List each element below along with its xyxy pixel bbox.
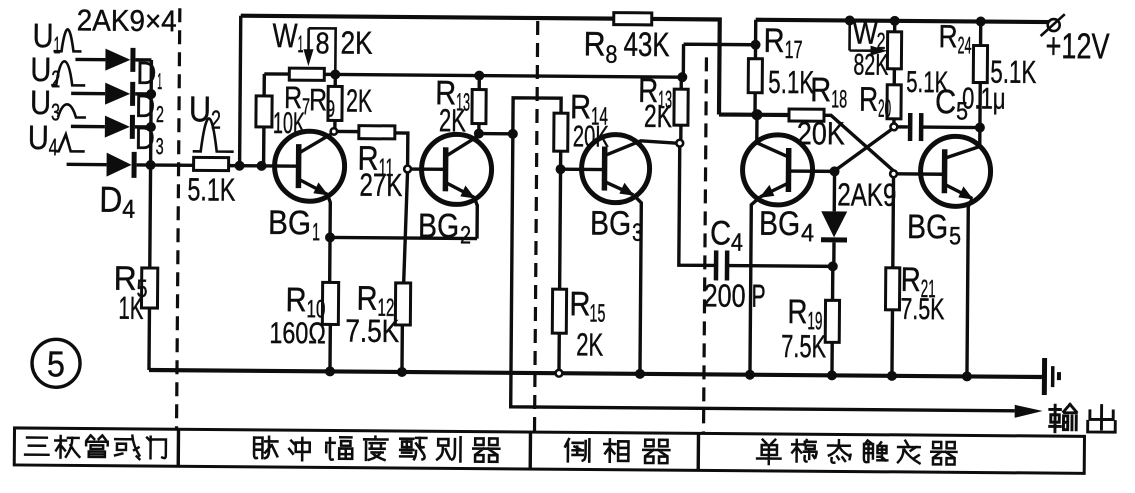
diode D3 — [105, 116, 130, 138]
wire: BG3 collector down to C4 — [679, 146, 717, 265]
resistor R12 — [402, 172, 408, 372]
svg-text:2K: 2K — [644, 98, 672, 134]
svg-text:1K: 1K — [118, 290, 143, 326]
node: R19 ground — [827, 370, 837, 380]
input line U4 / main input line — [67, 163, 107, 167]
resistor R21 — [892, 177, 894, 376]
band label: monostable trigger — [757, 440, 956, 466]
diode D2 — [105, 83, 130, 105]
diode D4 — [106, 153, 131, 177]
resistor 5.1K body (base series) — [194, 157, 229, 170]
svg-text:BG: BG — [590, 204, 631, 242]
node: BG3 collector (open) — [676, 140, 683, 147]
svg-text:3: 3 — [156, 133, 164, 159]
node: R13 top — [474, 71, 484, 81]
svg-text:2: 2 — [156, 101, 164, 127]
node: R17 top — [751, 40, 761, 50]
transistor BG5 — [920, 136, 991, 207]
wire: top feedback line from BG1 base to R17 bottom node — [240, 16, 790, 115]
svg-text:24: 24 — [957, 32, 971, 59]
svg-text:R: R — [763, 22, 784, 60]
svg-text:+12V: +12V — [1045, 25, 1109, 67]
svg-text:5: 5 — [949, 222, 961, 250]
node: R24 rail tap — [976, 16, 986, 26]
svg-text:7.5K: 7.5K — [900, 293, 944, 326]
svg-text:R: R — [938, 18, 957, 54]
resistor R19 — [830, 266, 834, 375]
svg-text:BG: BG — [418, 207, 459, 245]
svg-text:P: P — [751, 278, 765, 314]
resistor R7 — [262, 74, 266, 166]
dashed block separator 2 — [535, 21, 538, 432]
svg-text:9: 9 — [326, 95, 335, 121]
svg-text:C: C — [710, 214, 731, 252]
svg-text:R: R — [787, 293, 807, 331]
transistor BG4 (mirrored) — [742, 135, 813, 206]
node: BG3 emitter ground — [635, 369, 645, 379]
input line U2 — [71, 92, 105, 96]
svg-text:U: U — [30, 84, 51, 122]
node: OR output junction — [146, 160, 156, 170]
svg-text:2K: 2K — [439, 102, 466, 138]
input line U1 — [75, 58, 105, 62]
capacitor C5 — [897, 125, 980, 129]
resistor R20 — [887, 85, 901, 119]
node: BG5 emitter ground — [962, 371, 972, 381]
waveform u3 — [58, 104, 86, 117]
svg-text:R: R — [569, 285, 590, 323]
band label: pulse amplitude discriminator — [254, 436, 499, 462]
function band boxes — [14, 428, 1084, 473]
svg-text:8: 8 — [605, 41, 617, 69]
svg-text:1: 1 — [157, 68, 162, 94]
transistor BG2 — [421, 134, 492, 205]
svg-text:2: 2 — [460, 221, 471, 249]
svg-text:15: 15 — [589, 299, 605, 327]
output arrowhead — [1015, 405, 1043, 418]
dashed block separator 3 — [703, 57, 706, 433]
diode D1 — [105, 49, 130, 71]
svg-text:1: 1 — [53, 32, 60, 59]
wire: emitter join line — [330, 203, 477, 238]
svg-text:BG: BG — [268, 204, 311, 242]
node: BG1 collector (open) — [331, 128, 337, 134]
wire: main line to 5.1K — [137, 163, 194, 167]
resistor R9 — [333, 74, 337, 130]
svg-text:7.5K: 7.5K — [781, 328, 826, 364]
svg-text:W: W — [853, 15, 879, 51]
waveform u2 repeat — [193, 118, 234, 151]
svg-text:2K: 2K — [340, 24, 372, 60]
svg-text:BG: BG — [907, 208, 948, 246]
node: D3 cathode junction — [146, 122, 156, 132]
node: R15 ground (open) — [556, 370, 563, 377]
wire: link to R14 — [513, 98, 561, 134]
svg-text:C: C — [935, 83, 956, 121]
svg-text:8: 8 — [315, 27, 329, 60]
svg-text:R: R — [285, 281, 306, 319]
svg-text:4: 4 — [801, 219, 814, 247]
svg-text:BG: BG — [759, 205, 800, 243]
svg-text:W: W — [272, 17, 297, 55]
node: R7 tap on base line — [257, 161, 267, 171]
svg-text:17: 17 — [784, 36, 802, 64]
svg-text:4: 4 — [49, 134, 58, 161]
+12V terminal — [1048, 19, 1060, 31]
svg-text:160Ω: 160Ω — [269, 317, 326, 350]
node: R17 bottom / BG4 collector — [751, 109, 762, 120]
node: collector line top — [677, 72, 687, 82]
node: output tap — [508, 129, 518, 139]
resistor R8 body — [614, 13, 652, 25]
svg-text:U: U — [32, 17, 53, 55]
svg-text:82K: 82K — [853, 49, 888, 82]
node: R21 ground — [887, 371, 897, 381]
svg-text:2K: 2K — [576, 326, 603, 362]
svg-text:R: R — [810, 71, 831, 109]
transistor BG3 — [581, 134, 650, 203]
svg-text:20: 20 — [878, 95, 891, 123]
svg-text:D: D — [135, 88, 155, 124]
potentiometer W2 — [850, 20, 873, 50]
band label: inverter — [565, 439, 669, 463]
resistor R17 — [753, 45, 757, 115]
wire: base node to BG3 — [561, 168, 605, 172]
node: BG4 emitter ground — [745, 370, 755, 380]
wire: BG2 collector to output tap — [479, 132, 513, 136]
svg-text:U: U — [28, 119, 49, 157]
svg-text:5.1K: 5.1K — [768, 64, 814, 100]
resistor R10 — [329, 237, 331, 371]
waveform u4 — [55, 134, 85, 151]
svg-text:D: D — [135, 120, 155, 156]
band label: transistor OR gate — [25, 435, 166, 460]
svg-text:5: 5 — [47, 343, 65, 384]
resistor R15 — [559, 169, 561, 370]
svg-text:27K: 27K — [359, 167, 402, 203]
transistor BG1 — [274, 131, 345, 202]
node: W2 wiper rail tap — [845, 15, 855, 25]
svg-text:200: 200 — [703, 277, 745, 313]
node: BG2 collector — [474, 129, 484, 139]
waveform u1 — [53, 29, 81, 51]
wire: 5.1K to BG1 base — [229, 164, 299, 168]
potentiometer W1 — [264, 72, 335, 76]
svg-text:5.1K: 5.1K — [187, 171, 235, 207]
node: emitter/R10 junction — [325, 232, 335, 242]
diode 2AK9 — [832, 171, 836, 266]
svg-text:3: 3 — [632, 219, 643, 247]
svg-text:7.5K: 7.5K — [345, 313, 399, 349]
svg-text:4: 4 — [122, 194, 135, 224]
svg-text:R: R — [583, 25, 605, 63]
svg-text:1: 1 — [312, 218, 320, 246]
wire: collector supply line y=73 — [335, 74, 682, 77]
node: R12 ground — [397, 367, 407, 377]
node: feedback tap on base line — [235, 161, 245, 171]
input line U3 — [71, 125, 105, 129]
svg-text:2AK9×4: 2AK9×4 — [77, 4, 177, 38]
wire: drop from top line to BG1 base node — [240, 16, 241, 166]
ground symbol — [1042, 358, 1047, 395]
node: C5/R24/BG5 collector — [975, 122, 985, 132]
node: W1/R9 junction — [330, 69, 340, 79]
svg-text:R: R — [859, 81, 878, 119]
svg-text:D: D — [136, 55, 156, 91]
node: R20 bottom (open) — [890, 123, 897, 130]
+12V supply rail — [756, 20, 1049, 22]
svg-text:2K: 2K — [346, 83, 372, 119]
svg-text:D: D — [99, 179, 122, 220]
svg-text:R: R — [309, 82, 327, 117]
resistor R24 — [978, 22, 982, 128]
svg-text:U: U — [189, 88, 211, 129]
waveform u2 — [51, 61, 85, 85]
svg-text:1: 1 — [297, 31, 303, 58]
svg-text:2AK9: 2AK9 — [837, 176, 896, 212]
svg-text:5.1K: 5.1K — [990, 54, 1036, 90]
svg-text:2: 2 — [211, 104, 221, 134]
svg-text:43K: 43K — [623, 26, 670, 64]
node: BG4 base — [830, 166, 840, 176]
ground rail — [149, 370, 1042, 377]
svg-text:18: 18 — [831, 85, 847, 113]
dashed block separator 1 — [177, 8, 180, 429]
figure number 5 — [32, 339, 80, 387]
node: D2 cathode junction — [146, 89, 156, 99]
node: W2 top rail tap — [890, 16, 900, 26]
resistor R13 (BG2 collector) — [477, 76, 481, 134]
wire: diode OR bus — [149, 60, 153, 165]
node: BG5 base (open) — [890, 170, 897, 177]
wire: cross-coupling R20 to BG4 base — [837, 129, 891, 169]
resistor R13b (BG3 collector) — [679, 77, 683, 140]
resistor R18 — [789, 109, 824, 121]
svg-text:4: 4 — [731, 229, 743, 257]
wire: y40 link — [683, 44, 755, 78]
wire: output line from BG2 collector node — [511, 134, 1017, 411]
resistor R11 — [337, 131, 408, 165]
node: BG2 base (open) — [404, 166, 411, 173]
capacitor C4 — [714, 250, 719, 280]
node: C4/diode/R19 junction — [828, 261, 838, 271]
node: R10 ground — [325, 366, 335, 376]
wire: rail corner to R17 — [754, 20, 758, 45]
resistor R14 — [554, 113, 568, 151]
resistor R5 — [149, 165, 151, 370]
node: BG3 base — [556, 164, 566, 174]
label: output (shu chu) — [1050, 404, 1116, 432]
